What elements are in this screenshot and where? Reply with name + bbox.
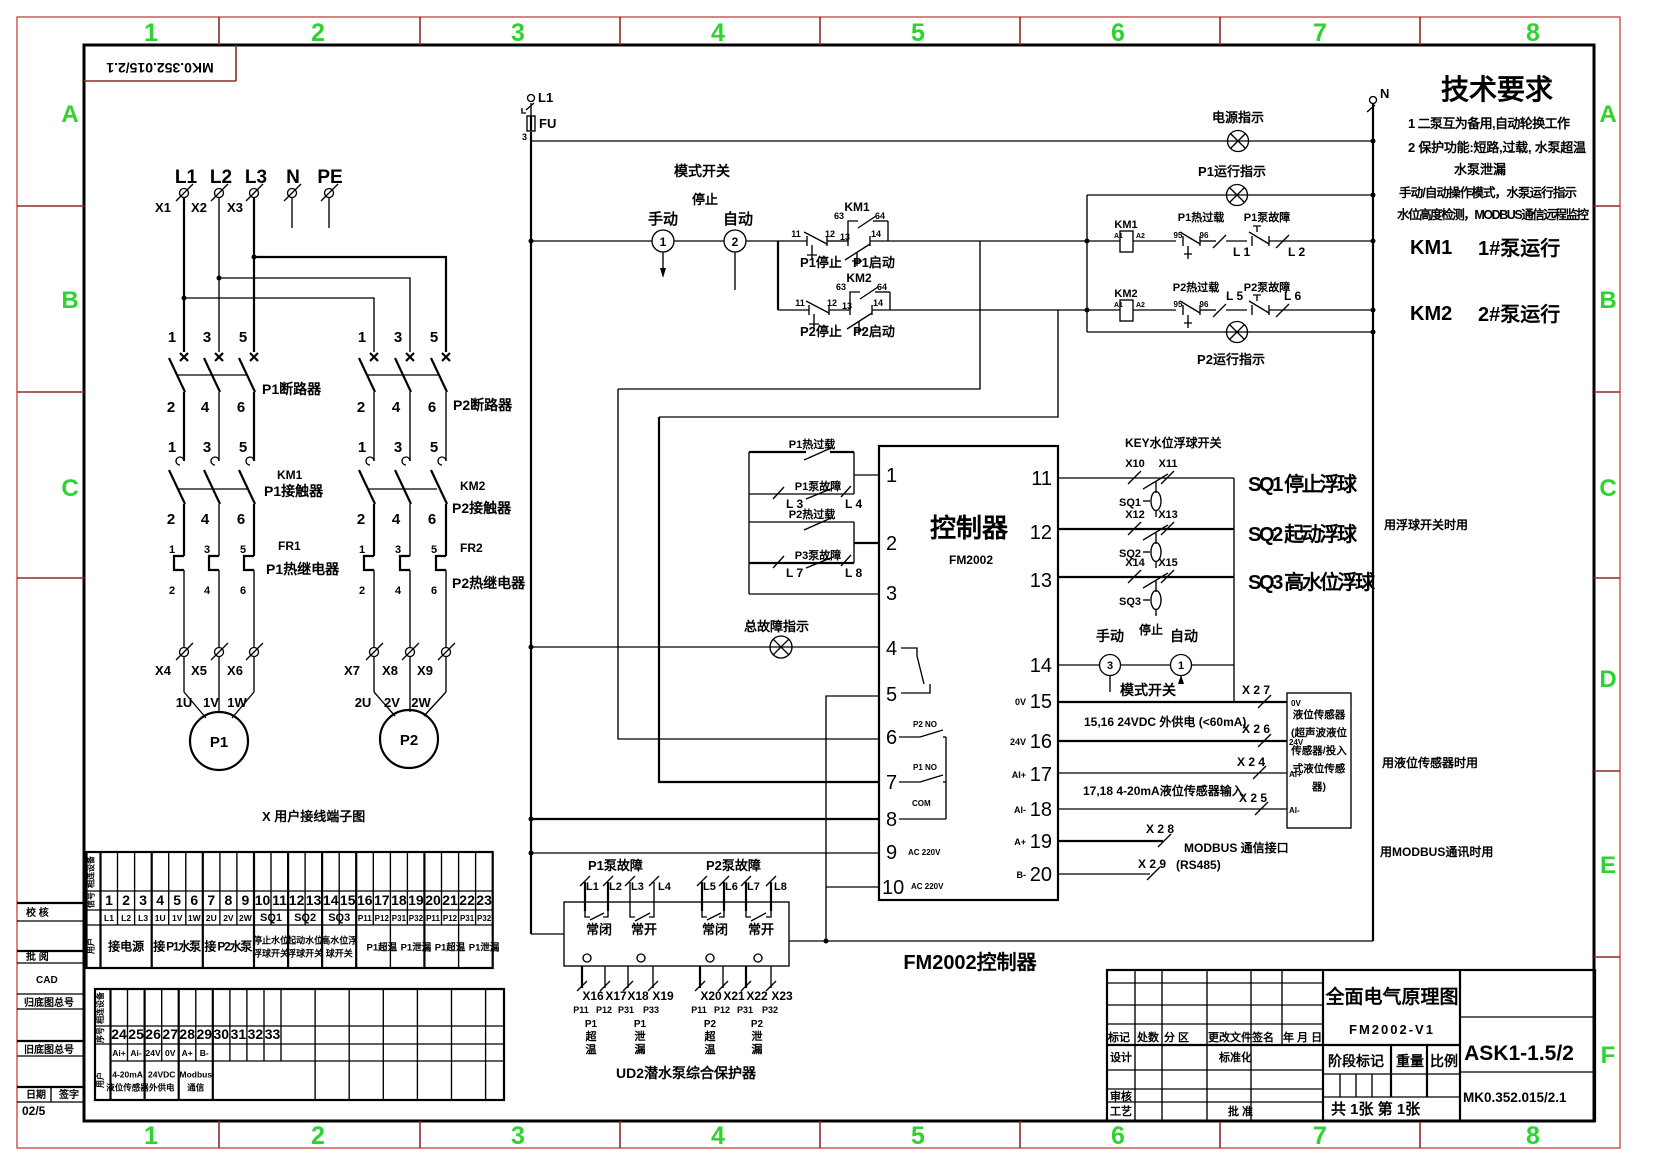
svg-text:C: C	[1599, 475, 1616, 502]
svg-text:P31: P31	[737, 1005, 753, 1015]
svg-text:X1: X1	[155, 200, 171, 215]
svg-text:水位高度检测，MODBUS通信远程监控: 水位高度检测，MODBUS通信远程监控	[1397, 207, 1589, 222]
internal COM bus	[899, 737, 946, 819]
node N-KM1	[1371, 239, 1376, 244]
svg-text:11: 11	[272, 892, 287, 908]
pin 5 wire	[826, 696, 879, 941]
svg-text:L 8: L 8	[845, 566, 862, 580]
svg-text:1V: 1V	[172, 913, 183, 923]
rung continues to KM2 coil	[1058, 309, 1120, 311]
right zone ticks	[1594, 205, 1620, 207]
svg-text:2 保护功能:短路,过载, 水泵超温: 2 保护功能:短路,过载, 水泵超温	[1408, 140, 1586, 155]
svg-text:X5: X5	[191, 663, 207, 678]
svg-text:4: 4	[204, 585, 211, 597]
lamp 电源指示	[1212, 110, 1264, 152]
svg-text:D: D	[1599, 666, 1616, 693]
svg-text:KM2: KM2	[460, 479, 486, 493]
svg-text:0V: 0V	[1015, 697, 1026, 707]
svg-text:1U: 1U	[155, 913, 166, 923]
controller U1 box	[879, 446, 1058, 900]
svg-text:L1: L1	[104, 913, 114, 923]
svg-text:A: A	[1599, 101, 1616, 128]
svg-text:L 5: L 5	[1226, 289, 1243, 303]
terminal L5 slash	[1213, 289, 1247, 317]
svg-text:通信: 通信	[187, 1083, 205, 1093]
svg-text:KEY水位浮球开关: KEY水位浮球开关	[1125, 435, 1222, 450]
svg-text:63: 63	[836, 282, 846, 292]
svg-text:P12: P12	[443, 914, 458, 923]
contact P1泵故障	[1244, 210, 1373, 246]
svg-text:23: 23	[476, 892, 492, 908]
svg-text:1V: 1V	[203, 695, 219, 710]
svg-text:起动水位: 起动水位	[286, 935, 323, 946]
svg-text:X18: X18	[627, 989, 649, 1003]
right: drawing codes	[1460, 1016, 1595, 1018]
pin 17 wire AI+	[1058, 755, 1302, 779]
thermal relay FR2 (P2热继电器)	[359, 541, 526, 647]
svg-text:X12: X12	[1125, 509, 1145, 521]
pin 15 wire 0V	[1058, 683, 1301, 708]
svg-text:2: 2	[169, 585, 175, 597]
terminal X2 (L2)	[191, 167, 232, 215]
svg-text:P1断路器: P1断路器	[262, 381, 322, 397]
breaker QF1 (P1断路器)	[167, 329, 322, 461]
svg-text:P2启动: P2启动	[853, 324, 895, 339]
svg-text:常闭: 常闭	[586, 922, 612, 937]
svg-text:3: 3	[394, 439, 402, 456]
svg-text:P2停止: P2停止	[800, 324, 842, 339]
svg-text:3: 3	[203, 329, 211, 346]
svg-text:5: 5	[431, 544, 437, 556]
contactor KM1 (P1接触器)	[167, 439, 324, 556]
svg-text:KM1: KM1	[1114, 219, 1137, 231]
input stub L3	[625, 876, 644, 911]
svg-text:13: 13	[306, 892, 322, 908]
svg-text:1U: 1U	[176, 695, 193, 710]
svg-text:27: 27	[162, 1026, 178, 1042]
svg-text:5: 5	[430, 329, 438, 346]
svg-text:P33: P33	[643, 1005, 659, 1015]
lamp P2运行指示 rung	[1087, 322, 1373, 368]
svg-text:6: 6	[190, 892, 198, 908]
button P2启动 (NO)	[842, 298, 1058, 339]
svg-text:分 区: 分 区	[1164, 1030, 1189, 1044]
svg-text:1: 1	[359, 544, 365, 556]
svg-text:AC 220V: AC 220V	[911, 882, 944, 891]
svg-text:B: B	[1599, 287, 1616, 314]
pin 20 wire MODBUS B-	[1058, 857, 1221, 880]
contact FR2 95-96 (P2热过载)	[1173, 280, 1219, 328]
svg-text:液位传感器: 液位传感器	[106, 1083, 149, 1093]
svg-text:24V: 24V	[146, 1048, 161, 1058]
contact P2泵故障	[1244, 280, 1373, 315]
input stub L1	[580, 876, 599, 911]
svg-text:X11: X11	[1159, 458, 1178, 470]
sensor lead X16	[573, 966, 604, 1015]
svg-text:B-: B-	[200, 1048, 209, 1058]
mode position 2 (自动)	[724, 230, 746, 290]
svg-text:漏: 漏	[752, 1042, 763, 1056]
svg-text:停止: 停止	[1139, 622, 1163, 637]
svg-text:6: 6	[431, 585, 437, 597]
svg-text:P2热继电器: P2热继电器	[452, 575, 526, 591]
svg-text:2V: 2V	[223, 913, 234, 923]
svg-text:18: 18	[391, 892, 407, 908]
svg-text:21: 21	[442, 892, 458, 908]
svg-text:X4: X4	[155, 663, 172, 678]
pin 16 wire 24V	[1058, 722, 1304, 747]
svg-text:P2: P2	[704, 1019, 717, 1030]
svg-text:L3: L3	[631, 881, 644, 893]
wire mode2-branch	[746, 240, 778, 242]
svg-text:P3泵故障: P3泵故障	[795, 548, 841, 562]
svg-text:COM: COM	[912, 799, 931, 808]
svg-text:超: 超	[585, 1029, 598, 1043]
svg-text:球开关: 球开关	[326, 948, 353, 959]
svg-text:KM2: KM2	[1410, 303, 1452, 325]
svg-text:B-: B-	[1017, 870, 1027, 880]
svg-text:X2: X2	[191, 200, 207, 215]
float SQ3 row (pin 13)	[1058, 557, 1234, 616]
internal contact P1 NO	[899, 763, 946, 782]
svg-text:3: 3	[511, 19, 525, 47]
svg-text:P31: P31	[618, 1005, 634, 1015]
svg-text:16: 16	[1030, 731, 1052, 753]
sensor lead X18	[618, 966, 649, 1015]
svg-text:P31: P31	[392, 914, 407, 923]
svg-text:2: 2	[311, 19, 325, 47]
drawing number box top-left (mirrored)	[84, 45, 236, 81]
svg-text:MK0.352.015/2.1: MK0.352.015/2.1	[1463, 1090, 1567, 1105]
svg-text:64: 64	[877, 282, 887, 292]
svg-text:X15: X15	[1158, 557, 1178, 569]
svg-text:12: 12	[1030, 522, 1052, 544]
svg-text:3: 3	[1107, 660, 1113, 672]
svg-text:30: 30	[214, 1026, 230, 1042]
svg-text:8: 8	[225, 892, 233, 908]
float SQ2 row (pin 12)	[1058, 509, 1234, 568]
svg-text:L3: L3	[138, 913, 148, 923]
svg-text:8: 8	[1526, 19, 1540, 47]
input stub L6	[719, 876, 738, 911]
power-on feed wire	[531, 140, 1373, 142]
svg-text:超: 超	[704, 1029, 717, 1043]
terminal X7	[344, 643, 383, 678]
svg-text:A1: A1	[1114, 302, 1123, 309]
svg-text:P12: P12	[596, 1005, 612, 1015]
input stub L4	[649, 876, 672, 911]
svg-text:比例: 比例	[1430, 1053, 1458, 1069]
button P1启动 (NO)	[840, 229, 980, 270]
svg-text:器): 器)	[1311, 781, 1326, 793]
svg-text:14: 14	[323, 892, 339, 908]
sensor port 1	[583, 954, 591, 962]
lamp P1运行指示 rung	[1087, 164, 1373, 206]
svg-text:12: 12	[825, 229, 835, 239]
svg-text:P1 NO: P1 NO	[913, 763, 937, 772]
svg-text:SQ3 高水位浮球: SQ3 高水位浮球	[1248, 570, 1376, 594]
svg-text:归底图总号: 归底图总号	[24, 996, 74, 1009]
svg-text:常闭: 常闭	[702, 922, 728, 937]
svg-text:C: C	[61, 475, 78, 502]
svg-text:序号: 序号	[95, 1027, 105, 1043]
svg-text:手动: 手动	[1096, 628, 1124, 644]
svg-text:N: N	[1380, 86, 1389, 101]
svg-text:P2运行指示: P2运行指示	[1197, 352, 1265, 367]
sensor lead X20	[691, 966, 722, 1015]
svg-text:1: 1	[1178, 660, 1184, 672]
UD2	[531, 858, 793, 1081]
svg-text:AC 220V: AC 220V	[908, 848, 941, 857]
svg-text:7: 7	[886, 772, 897, 794]
pin 8 wire	[531, 818, 879, 820]
svg-text:4: 4	[156, 892, 164, 908]
svg-text:X23: X23	[771, 989, 793, 1003]
wire mode1-mode2	[674, 240, 724, 242]
terminal L1 control feed	[526, 90, 553, 110]
svg-text:10: 10	[255, 892, 271, 908]
motor P1	[190, 712, 248, 770]
svg-text:AI-: AI-	[1289, 806, 1300, 815]
rung continues to KM1 coil	[980, 240, 1120, 242]
sensor lead X23	[762, 966, 793, 1015]
contact 常开 L3-L4	[630, 911, 657, 937]
svg-text:SQ3: SQ3	[328, 912, 350, 924]
pin 14 rung	[1058, 664, 1099, 666]
svg-text:2V: 2V	[384, 695, 400, 710]
terminal table X1-X23	[86, 852, 500, 968]
svg-text:L1: L1	[586, 881, 599, 893]
svg-text:1W: 1W	[188, 913, 202, 923]
svg-text:3: 3	[204, 544, 210, 556]
svg-text:1: 1	[168, 329, 176, 346]
svg-text:0V: 0V	[165, 1048, 176, 1058]
svg-text:泄: 泄	[752, 1029, 763, 1043]
svg-text:Ai+: Ai+	[112, 1048, 126, 1058]
svg-text:AI+: AI+	[1012, 770, 1026, 780]
svg-text:63: 63	[834, 211, 844, 221]
svg-text:A2: A2	[1136, 302, 1145, 309]
POWER	[155, 167, 526, 824]
svg-text:14: 14	[871, 229, 881, 239]
svg-text:L 4: L 4	[845, 497, 862, 511]
contact KM1 aux (seal-in)	[834, 200, 888, 241]
svg-text:阶段标记: 阶段标记	[1328, 1053, 1384, 1069]
wire mode3-mode1	[1121, 664, 1170, 666]
svg-text:14: 14	[1030, 655, 1052, 677]
sensor lead X19	[643, 966, 674, 1015]
contact P1热过载	[749, 451, 806, 453]
svg-text:电源指示: 电源指示	[1212, 110, 1264, 125]
svg-text:(超声波液位: (超声波液位	[1291, 726, 1347, 739]
svg-text:X6: X6	[227, 663, 243, 678]
svg-text:25: 25	[128, 1026, 144, 1042]
tech requirements	[1397, 74, 1589, 222]
svg-text:P11: P11	[573, 1005, 589, 1015]
coil KM2	[1114, 288, 1176, 321]
N bus	[1372, 104, 1374, 941]
svg-text:1: 1	[144, 19, 158, 47]
sensor lead X21	[714, 966, 745, 1015]
contact 常开 L7-L8	[746, 911, 774, 937]
svg-text:重量: 重量	[1396, 1053, 1424, 1069]
svg-text:4: 4	[392, 511, 401, 528]
CONTROLLER	[529, 389, 1374, 974]
svg-text:常开: 常开	[631, 922, 657, 937]
svg-text:7: 7	[1313, 19, 1327, 47]
svg-text:10: 10	[882, 877, 904, 899]
svg-text:X3: X3	[227, 200, 243, 215]
svg-text:1#泵运行: 1#泵运行	[1478, 236, 1560, 260]
svg-text:29: 29	[197, 1026, 213, 1042]
CONTROL	[522, 74, 1589, 941]
svg-text:F: F	[1601, 1042, 1616, 1069]
svg-text:2U: 2U	[355, 695, 372, 710]
svg-text:P2: P2	[400, 732, 418, 749]
svg-text:FM2002: FM2002	[949, 553, 993, 567]
svg-text:Modbus: Modbus	[180, 1070, 213, 1080]
svg-text:4: 4	[886, 638, 897, 660]
svg-text:PE: PE	[317, 167, 342, 188]
svg-text:高水位浮: 高水位浮	[321, 935, 357, 946]
svg-text:L2: L2	[609, 881, 622, 893]
svg-text:7: 7	[1313, 1122, 1327, 1150]
svg-text:P1: P1	[585, 1019, 598, 1030]
svg-text:X19: X19	[652, 989, 674, 1003]
svg-text:2: 2	[311, 1122, 325, 1150]
left control bus L	[530, 132, 532, 934]
pin 7 wire	[659, 417, 879, 782]
svg-text:L2: L2	[210, 167, 232, 188]
svg-text:P1泄漏: P1泄漏	[401, 942, 432, 954]
svg-text:P2: P2	[751, 1019, 764, 1030]
svg-text:签名: 签名	[1251, 1030, 1274, 1044]
svg-text:处数: 处数	[1136, 1030, 1160, 1044]
P2 rung	[778, 298, 850, 339]
svg-text:用户: 用户	[86, 938, 96, 955]
mode position 1 (手动)	[652, 230, 674, 278]
svg-text:液位传感器: 液位传感器	[1293, 708, 1346, 721]
svg-text:X7: X7	[344, 663, 360, 678]
internal contact P2 NO	[899, 720, 946, 737]
node L1 tap	[182, 296, 187, 301]
terminal N	[284, 167, 301, 228]
svg-text:5: 5	[239, 329, 247, 346]
wire L1 to P1 breaker	[183, 198, 185, 352]
svg-text:批 阅: 批 阅	[26, 950, 49, 963]
sensor port 2	[637, 954, 645, 962]
fuse FU	[522, 103, 556, 142]
pin3 wire	[749, 593, 879, 595]
contact 常闭 L1-L2	[585, 911, 612, 937]
svg-text:P1热过载: P1热过载	[789, 437, 835, 451]
svg-text:停止: 停止	[692, 192, 718, 207]
svg-text:用液位传感器时用: 用液位传感器时用	[1381, 755, 1478, 770]
svg-text:ASK1-1.5/2: ASK1-1.5/2	[1464, 1042, 1574, 1065]
svg-text:L 1: L 1	[1233, 245, 1250, 259]
vertical label P1超温	[585, 1019, 598, 1056]
pin 19 wire MODBUS A+	[1058, 822, 1289, 855]
svg-text:1: 1	[358, 439, 366, 456]
node N-KM2	[1371, 308, 1376, 313]
thermal relay FR1 (P1热继电器)	[169, 539, 340, 647]
bottom zone ticks	[218, 1121, 220, 1148]
svg-text:4: 4	[711, 19, 725, 47]
wire L3 tap to P2 breaker	[254, 257, 446, 352]
svg-text:X 2 4: X 2 4	[1237, 755, 1265, 769]
svg-text:A: A	[61, 101, 78, 128]
node P1 rung right	[1085, 239, 1090, 244]
svg-text:外供电: 外供电	[148, 1083, 175, 1093]
svg-text:5: 5	[911, 19, 925, 47]
svg-text:技术要求: 技术要求	[1441, 74, 1553, 105]
svg-text:15: 15	[1030, 691, 1052, 713]
svg-text:签字: 签字	[58, 1088, 79, 1101]
svg-text:2#泵运行: 2#泵运行	[1478, 302, 1560, 326]
svg-text:6: 6	[237, 511, 245, 528]
svg-text:7: 7	[207, 892, 215, 908]
wire to pin6 loop	[618, 241, 980, 389]
svg-text:总故障指示: 总故障指示	[744, 619, 809, 634]
svg-text:传感器/投入: 传感器/投入	[1290, 744, 1347, 757]
svg-text:CAD: CAD	[36, 975, 58, 986]
svg-text:L1: L1	[538, 90, 553, 105]
svg-text:5: 5	[173, 892, 181, 908]
svg-text:P1泵故障: P1泵故障	[795, 479, 841, 493]
wire L2 to P1 breaker	[218, 198, 220, 352]
svg-text:X8: X8	[382, 663, 398, 678]
contact 常闭 L5-L6	[702, 911, 728, 937]
svg-text:X 2 6: X 2 6	[1242, 722, 1270, 736]
svg-text:L8: L8	[774, 881, 787, 893]
terminal N top	[1367, 86, 1389, 112]
svg-text:26: 26	[145, 1026, 161, 1042]
svg-text:19: 19	[408, 892, 424, 908]
contact KM2 aux (seal-in)	[836, 271, 890, 310]
svg-text:式液位传感: 式液位传感	[1293, 762, 1346, 775]
svg-text:KM2: KM2	[846, 271, 872, 285]
svg-text:P1: P1	[634, 1019, 647, 1030]
svg-text:B: B	[61, 287, 78, 314]
svg-text:(RS485): (RS485)	[1176, 858, 1221, 872]
svg-text:控制器: 控制器	[930, 513, 1009, 543]
svg-text:16: 16	[357, 892, 373, 908]
svg-text:P2断路器: P2断路器	[453, 397, 513, 413]
svg-text:1: 1	[168, 439, 176, 456]
svg-text:5: 5	[911, 1122, 925, 1150]
svg-text:相连设备: 相连设备	[86, 855, 96, 888]
svg-text:6: 6	[240, 585, 246, 597]
svg-text:2: 2	[357, 511, 365, 528]
svg-text:5: 5	[239, 439, 247, 456]
terminal X3 (L3)	[227, 167, 267, 215]
pin1 wire	[854, 474, 879, 476]
svg-text:共 1张 第 1张: 共 1张 第 1张	[1331, 1100, 1421, 1118]
feed from L bus	[531, 933, 564, 935]
svg-text:停止水位: 停止水位	[253, 935, 289, 946]
svg-text:A+: A+	[1014, 837, 1026, 847]
svg-text:9: 9	[886, 842, 897, 864]
terminal table X24-X33	[95, 989, 504, 1100]
svg-text:2: 2	[357, 399, 365, 416]
node L3 tap	[252, 255, 257, 260]
svg-text:FR1: FR1	[278, 539, 301, 553]
top zone ticks	[218, 17, 220, 45]
svg-text:设计: 设计	[1110, 1050, 1132, 1064]
svg-text:P1运行指示: P1运行指示	[1198, 164, 1266, 179]
svg-text:2: 2	[732, 235, 739, 249]
node bus-main	[529, 239, 534, 244]
